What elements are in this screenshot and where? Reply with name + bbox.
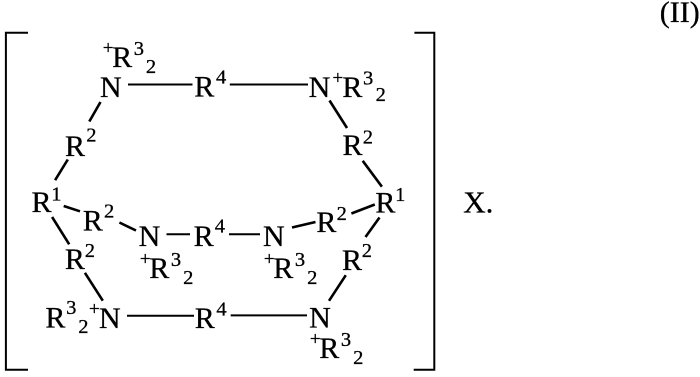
svg-text:+: + xyxy=(310,329,321,350)
svg-text:2: 2 xyxy=(146,56,156,78)
svg-text:3: 3 xyxy=(363,67,373,89)
svg-text:2: 2 xyxy=(307,267,317,289)
svg-text:R: R xyxy=(375,186,395,219)
svg-text:+: + xyxy=(89,299,100,320)
svg-text:2: 2 xyxy=(85,240,95,262)
svg-text:2: 2 xyxy=(78,316,88,338)
svg-text:R: R xyxy=(319,332,339,365)
svg-text:(II): (II) xyxy=(660,0,700,29)
svg-text:R: R xyxy=(342,244,362,277)
svg-text:2: 2 xyxy=(376,84,386,106)
svg-text:2: 2 xyxy=(86,125,96,147)
svg-text:+: + xyxy=(140,249,151,270)
svg-text:R: R xyxy=(343,129,363,162)
bond N3-R4 middle xyxy=(167,233,191,235)
svg-text:4: 4 xyxy=(216,299,226,321)
svg-text:X.: X. xyxy=(463,185,493,220)
svg-text:R: R xyxy=(65,130,85,163)
svg-text:3: 3 xyxy=(341,329,351,351)
svg-text:R: R xyxy=(194,70,214,103)
right bracket xyxy=(414,33,435,370)
svg-text:2: 2 xyxy=(353,347,363,369)
svg-text:R: R xyxy=(112,41,132,74)
svg-text:R: R xyxy=(83,205,103,238)
bond R2-N3 mid-left xyxy=(119,223,136,231)
bond R4-N6 bottom xyxy=(231,314,307,316)
svg-text:4: 4 xyxy=(216,67,226,89)
svg-text:N: N xyxy=(309,71,331,104)
svg-text:3: 3 xyxy=(171,249,181,271)
bond R2-R1 upper-right xyxy=(363,161,382,187)
svg-text:R: R xyxy=(194,220,214,253)
svg-text:N: N xyxy=(100,71,122,104)
bond R1-R2 lower-right xyxy=(366,218,380,238)
bond N1-R4 top xyxy=(128,84,193,86)
svg-text:R: R xyxy=(342,71,362,104)
svg-text:2: 2 xyxy=(104,201,114,223)
svg-text:N: N xyxy=(99,302,121,335)
bond R4-N2 top xyxy=(230,84,308,86)
bond R2-R1 upper-left xyxy=(55,160,68,181)
bond R2-R1 mid-right xyxy=(351,205,374,214)
svg-text:+: + xyxy=(333,68,344,89)
svg-text:2: 2 xyxy=(183,267,193,289)
svg-text:3: 3 xyxy=(66,297,76,319)
svg-text:1: 1 xyxy=(395,184,405,206)
svg-text:2: 2 xyxy=(337,203,347,225)
svg-text:R: R xyxy=(273,252,293,285)
bond N1-R2 upper-left xyxy=(89,102,100,122)
svg-text:2: 2 xyxy=(363,127,373,149)
svg-text:+: + xyxy=(103,38,114,59)
svg-text:R: R xyxy=(195,302,215,335)
left bracket xyxy=(6,33,28,370)
bond R2-N5 lower-left xyxy=(85,273,103,301)
bond R1-R2 mid-left xyxy=(64,206,80,211)
bond N5-R4 bottom xyxy=(127,315,194,317)
svg-text:2: 2 xyxy=(362,240,372,262)
svg-text:R: R xyxy=(45,301,65,334)
svg-text:R: R xyxy=(32,186,52,219)
svg-text:3: 3 xyxy=(134,38,144,60)
svg-text:3: 3 xyxy=(295,249,305,271)
bond N4-R2 mid-right xyxy=(292,222,316,228)
svg-text:R: R xyxy=(316,206,336,239)
svg-text:1: 1 xyxy=(51,184,61,206)
svg-text:R: R xyxy=(149,252,169,285)
bond R2-N6 lower-right xyxy=(329,275,346,301)
bond R1-R2 lower-left xyxy=(52,217,69,244)
bond N2-R2 upper-right xyxy=(330,101,348,129)
svg-text:R: R xyxy=(65,243,85,276)
bond R4-N4 middle xyxy=(229,233,260,235)
svg-text:4: 4 xyxy=(215,216,225,238)
svg-text:+: + xyxy=(264,249,275,270)
